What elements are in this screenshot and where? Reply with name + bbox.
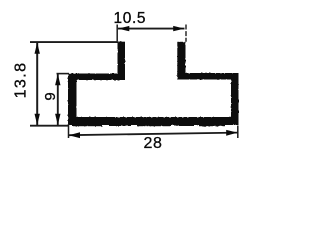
dimension line 9 [57,74,59,125]
arrowhead 9 up [55,74,60,85]
dimension line 10.5 [118,28,185,30]
extension line bottom left of 28 dim [68,124,70,138]
profile left outer wall [68,74,77,126]
arrowhead 10.5 right [173,26,184,31]
profile left wing top wall [68,74,125,81]
arrowhead 13.8 up [35,43,40,54]
extension line bottom-left [30,125,69,127]
arrowhead 13.8 down [35,114,40,125]
dimension line 28 [69,133,238,136]
arrowhead 10.5 left [118,26,129,31]
extension line top for 13.8 dim [30,41,118,43]
svg-text:13.8: 13.8 [12,62,29,99]
extension line bottom right of 28 dim [237,126,239,139]
arrowhead 28 left [69,132,80,138]
profile right post [177,42,185,80]
svg-text:10.5: 10.5 [114,10,147,27]
dimension line 13.8 [36,43,38,125]
extension line left of 10.5 dim [116,25,118,42]
extension line short for 9 dim [57,73,70,75]
profile left post [118,42,126,80]
arrowhead 9 down [55,114,60,125]
profile bottom wall [68,117,239,125]
extension line right of 10.5 dim [185,25,187,42]
svg-text:28: 28 [144,135,163,150]
profile right outer wall [231,73,239,125]
arrowhead 28 right [226,130,237,136]
profile right wing top wall [177,73,238,80]
svg-text:9: 9 [42,92,59,100]
profile bottom wall ragged edge [72,125,102,126]
